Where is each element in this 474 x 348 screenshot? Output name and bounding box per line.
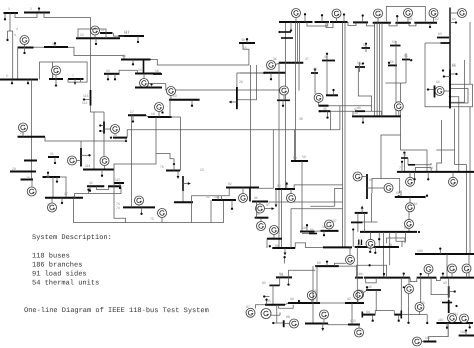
load bus49	[362, 116, 364, 123]
svg-text:113: 113	[83, 94, 89, 98]
load bus33r up	[332, 89, 334, 95]
bus 104 row b	[364, 277, 410, 279]
bus 99b	[267, 238, 282, 240]
wire 35-48 long	[330, 110, 381, 112]
wire 64x down d	[389, 232, 391, 265]
wire 84-83	[279, 277, 281, 285]
wire G99 stub	[273, 234, 275, 239]
node 13c dot	[278, 31, 280, 33]
generator G bus 31	[27, 187, 36, 196]
node 92 dot	[298, 300, 300, 302]
bus 56	[388, 64, 397, 66]
node 54 dot	[362, 62, 364, 64]
bus 12	[76, 37, 120, 39]
svg-text:59: 59	[293, 156, 297, 160]
generator G bus 15	[140, 79, 149, 88]
wire 96-100 b	[310, 205, 334, 207]
wire 81 u-box	[396, 232, 406, 241]
bus row seg 26	[315, 21, 330, 23]
node 64x dot	[352, 228, 354, 230]
wire 65b down b	[364, 213, 366, 232]
svg-text:7: 7	[72, 74, 74, 78]
wire 25-27 b	[60, 177, 66, 198]
node 18 dot	[161, 111, 163, 113]
wire 85-19x	[277, 305, 284, 323]
generator G bus 112r	[460, 314, 469, 323]
svg-text:91: 91	[313, 289, 317, 293]
load 68s dot	[403, 151, 405, 158]
svg-text:64: 64	[452, 17, 456, 21]
bus 118	[212, 199, 236, 201]
wire 115 down	[114, 183, 126, 223]
wire 112x right	[363, 221, 378, 223]
wire bus1-bus2 jog	[15, 13, 37, 18]
wire 96-98	[256, 202, 258, 218]
node 56 dot	[388, 62, 390, 64]
svg-text:63: 63	[438, 32, 442, 36]
generator G bus 105r	[424, 265, 433, 274]
wire 53 down to 49	[395, 60, 397, 117]
wire G75 stub	[161, 217, 163, 222]
bus 2	[24, 12, 50, 14]
bus 100r	[415, 253, 474, 255]
bus 6	[49, 78, 63, 80]
bus 24	[18, 136, 46, 138]
svg-text:22: 22	[206, 195, 210, 199]
wire 96-100 c	[335, 188, 343, 206]
svg-text:30: 30	[113, 133, 117, 137]
bus 48	[355, 110, 365, 112]
wire node4 h	[8, 30, 11, 32]
generator G bus 75g	[158, 209, 167, 218]
load bus110 a	[99, 124, 104, 126]
long wire pair b	[344, 22, 346, 247]
wire G111 stub	[104, 128, 111, 130]
svg-text:12: 12	[80, 33, 84, 37]
bus 15c	[239, 42, 255, 44]
wire 105-106	[315, 230, 321, 232]
bus 89x	[315, 265, 339, 267]
long wire right col b	[469, 107, 471, 254]
load bus2 up	[38, 7, 40, 12]
wire 63 col	[424, 43, 426, 107]
bus 93 vertical b	[448, 300, 450, 313]
bus 58	[408, 164, 415, 166]
svg-text:117: 117	[124, 31, 130, 35]
load bus94 a	[372, 315, 374, 322]
wire 34-48 long	[329, 106, 372, 112]
bus 15	[135, 87, 162, 89]
wire 116-81	[408, 212, 410, 220]
wire G46 stub	[363, 291, 366, 293]
load 20 dot	[263, 295, 269, 297]
svg-text:95: 95	[421, 301, 425, 305]
wire G66x stub	[362, 176, 367, 178]
svg-text:100: 100	[417, 249, 423, 253]
svg-text:97: 97	[266, 203, 270, 207]
generator G bus 111r	[448, 314, 457, 323]
wire row2 u1	[366, 278, 377, 283]
bus 76	[166, 170, 180, 172]
svg-text:85: 85	[267, 299, 271, 303]
svg-text:107: 107	[331, 219, 337, 223]
bus 110	[436, 322, 473, 324]
bus 31b	[48, 156, 59, 158]
svg-text:45: 45	[368, 285, 372, 289]
wire 65b down a	[357, 213, 359, 232]
bus 23x	[24, 160, 37, 162]
long wire right col a	[469, 22, 471, 84]
bus 85	[265, 304, 285, 306]
wire G56x stub	[283, 95, 285, 101]
wire 16-20 link	[238, 65, 257, 100]
wire 69 box	[372, 179, 400, 194]
load row2 d	[442, 272, 444, 277]
load 104 dot	[403, 286, 405, 288]
wire stair 56-49	[386, 82, 407, 84]
long wire bus5 down-left column	[31, 80, 33, 180]
wire 92-103	[351, 303, 353, 325]
load bus84 top	[283, 256, 285, 263]
wire 65-79 a	[450, 97, 459, 172]
svg-text:110: 110	[438, 318, 444, 322]
load bus97	[265, 207, 275, 210]
bus 43	[311, 72, 318, 74]
svg-text:31: 31	[50, 152, 54, 156]
load bus77 a	[413, 172, 415, 181]
wire 77 left v	[190, 196, 192, 223]
bus 93 vertical a	[448, 286, 450, 297]
svg-text:4: 4	[16, 27, 18, 31]
generator G bus 111	[111, 125, 120, 134]
wire 35 branch down	[339, 106, 341, 130]
svg-text:106: 106	[322, 225, 328, 229]
load bus110 b	[99, 130, 104, 132]
wire G10 stub	[24, 44, 26, 47]
svg-text:18: 18	[151, 112, 155, 116]
wire 110-112	[429, 323, 449, 342]
svg-text:82: 82	[228, 182, 232, 186]
bus 56x	[277, 99, 290, 101]
generator G bus 81g	[405, 219, 414, 228]
load bus6	[55, 79, 57, 87]
wire G106r stub	[451, 273, 453, 278]
wire 30-38 branch	[259, 130, 273, 188]
svg-text:15: 15	[243, 46, 247, 50]
bus 92b	[345, 302, 364, 304]
wire G25 stub	[295, 17, 297, 22]
svg-text:69: 69	[369, 178, 373, 182]
wire G91 stub	[334, 263, 345, 266]
bus 96	[252, 201, 268, 203]
load bus19	[191, 100, 193, 107]
svg-text:51: 51	[403, 153, 407, 157]
svg-text:111: 111	[453, 312, 458, 316]
bus 63b	[441, 42, 451, 44]
svg-text:94: 94	[366, 310, 370, 314]
load bus7	[74, 79, 77, 85]
generator G bus 25	[292, 9, 301, 18]
load bus20	[229, 101, 237, 104]
wire 80 box a	[290, 209, 292, 248]
wire G26t stub	[336, 18, 338, 22]
bus 102	[305, 323, 328, 325]
wire G104 stub	[408, 278, 410, 285]
bus 63a	[437, 37, 449, 39]
wire bus3 loop down	[40, 62, 53, 80]
load row2 b	[403, 272, 405, 277]
wire G15 stub up	[143, 74, 145, 79]
load bus66	[427, 88, 435, 90]
wire 118 down	[210, 200, 212, 222]
load bus74	[140, 207, 142, 215]
svg-text:1: 1	[8, 7, 10, 11]
bus 20 vertical	[236, 87, 238, 109]
bus 5	[0, 79, 38, 81]
generator G bus 89	[290, 319, 299, 328]
svg-text:39: 39	[241, 38, 245, 42]
generator G bus 103g	[355, 328, 364, 337]
wire 77 box	[415, 168, 431, 172]
node 80 left	[269, 245, 271, 247]
bus 29	[10, 171, 36, 173]
wire bundle b	[376, 23, 378, 117]
wire 21-22	[182, 191, 184, 202]
load bus115	[119, 183, 121, 189]
wire 100-102 col	[316, 266, 318, 303]
wire G62 stub	[433, 17, 435, 23]
wire 4-7 link	[53, 62, 88, 82]
generator G bus 85g	[261, 309, 271, 319]
svg-text:74: 74	[116, 206, 120, 210]
bus 54	[355, 66, 365, 68]
bus 37	[279, 62, 304, 64]
wire 45 down	[375, 290, 377, 311]
wire row2 to 94	[400, 278, 402, 311]
svg-text:78: 78	[388, 243, 392, 247]
wire 65-79 b	[450, 60, 465, 102]
bus 19	[170, 99, 200, 101]
bus 30	[113, 137, 127, 139]
load bus15 tick	[150, 83, 152, 87]
wire 94-110	[401, 315, 427, 323]
svg-text:26: 26	[47, 203, 51, 207]
svg-text:62: 62	[435, 17, 439, 21]
wire 55 v	[405, 53, 407, 66]
bus 88 vertical	[283, 320, 285, 327]
load bus62 dn	[275, 188, 278, 207]
wire bus17-18	[146, 115, 148, 117]
bus 99 cap b	[361, 240, 363, 246]
svg-text:11: 11	[101, 28, 105, 32]
generator G bus 24	[19, 123, 28, 132]
wire stair2	[437, 120, 442, 172]
generator G bus 62	[429, 9, 438, 18]
generator G bus 10	[20, 36, 29, 45]
generator G bus 80b	[449, 177, 458, 186]
load bus99 a	[369, 247, 371, 253]
bus 69 vertical	[366, 174, 368, 199]
wire G112 stub	[76, 160, 81, 162]
load bus110 a	[446, 323, 448, 329]
wire 40 down	[326, 61, 328, 96]
bus row seg 28	[353, 21, 368, 23]
wire bus10 down	[17, 48, 19, 80]
wire box down	[371, 193, 373, 222]
bus row seg 25	[279, 21, 313, 23]
svg-text:105: 105	[302, 226, 308, 230]
bus 94 cap b	[400, 311, 402, 319]
wire G112g stub	[421, 341, 423, 343]
bus 55	[402, 59, 410, 61]
wire G18 stub	[158, 111, 160, 117]
bus 27	[45, 197, 83, 199]
svg-text:3: 3	[52, 42, 54, 46]
node 68 dot b	[426, 195, 428, 197]
wire 113b top	[80, 141, 82, 148]
load bus32a	[89, 186, 91, 192]
svg-text:87: 87	[246, 305, 250, 309]
load row2 a	[383, 273, 385, 278]
svg-text:29: 29	[12, 167, 16, 171]
load bus113b	[81, 154, 91, 156]
generator G bus 36	[267, 61, 276, 70]
load bus25 up	[47, 172, 49, 177]
generator G bus 59	[374, 9, 383, 18]
svg-text:103: 103	[350, 319, 356, 323]
load bus65	[443, 75, 450, 77]
node 110 left dot	[426, 322, 428, 324]
wire 83-85	[272, 285, 274, 304]
generator G bus 33	[314, 93, 323, 102]
svg-text:116: 116	[412, 202, 418, 206]
load bus64 m	[450, 73, 458, 75]
load bus12	[95, 38, 97, 45]
wire 63 feed	[425, 42, 441, 44]
svg-text:33: 33	[106, 69, 110, 73]
bus 49	[352, 115, 401, 117]
load bus13	[132, 60, 134, 66]
wire 96-100 a	[268, 201, 342, 203]
svg-text:118: 118	[214, 195, 220, 199]
wire G31 stub	[31, 180, 33, 188]
long wire 24-30	[45, 137, 126, 141]
bus 53	[390, 45, 401, 47]
wire 100r v b	[468, 254, 470, 278]
svg-text:14: 14	[138, 68, 142, 72]
svg-text:32: 32	[89, 181, 93, 185]
wire 18-115	[114, 117, 156, 183]
load row dot c	[343, 13, 345, 22]
svg-text:2: 2	[30, 7, 32, 11]
load bus105 up	[306, 224, 308, 231]
wire 52 v	[365, 48, 367, 52]
generator G bus 61	[404, 9, 413, 18]
wire 11-117 jog	[114, 33, 124, 36]
generator G bus 66	[435, 87, 444, 96]
wire 65 stair down	[455, 109, 467, 165]
svg-text:One-line Diagram of IEEE 118-b: One-line Diagram of IEEE 118-bus Test Sy…	[24, 307, 209, 315]
bus 113 vertical	[90, 90, 92, 106]
wire 55 to stair	[405, 66, 407, 83]
bus 3	[44, 46, 68, 48]
bus 34rs	[318, 105, 328, 107]
wire 47 stair	[401, 116, 428, 172]
bus 99 cap a	[358, 240, 360, 246]
bus 13c b	[281, 37, 293, 39]
wire G12 stub	[94, 35, 96, 39]
wire G91g stub	[311, 300, 313, 304]
svg-text:19: 19	[173, 94, 177, 98]
bus 40	[322, 60, 335, 62]
long wire 12-15	[151, 43, 249, 65]
bus 45	[366, 289, 381, 291]
load bus43 up	[314, 68, 316, 73]
wire row u3	[348, 22, 356, 26]
svg-text:76: 76	[160, 165, 164, 169]
wire G33 stub	[318, 102, 320, 105]
long wire right col c	[466, 165, 468, 255]
bus 104 row d	[440, 277, 474, 279]
node bus34 left	[263, 72, 265, 74]
svg-text:53: 53	[392, 40, 396, 44]
wire 77 left link	[191, 188, 229, 196]
bus 34	[264, 72, 286, 74]
long wire 15-82	[250, 65, 252, 188]
bus 115	[114, 182, 124, 184]
bus 83	[269, 284, 279, 286]
wire 84 feed	[289, 270, 316, 277]
node 108 dot	[407, 322, 409, 324]
wire G26 stub	[51, 198, 53, 204]
wire 85 u	[279, 305, 294, 308]
bus 98	[255, 217, 269, 219]
load bus76 dn	[177, 171, 180, 180]
wire G100 stub up	[370, 232, 372, 239]
long wire 99-92	[356, 247, 358, 303]
node 65 j1	[449, 96, 451, 98]
wire bundle d	[381, 23, 383, 117]
wire G64t stub	[450, 12, 458, 14]
load bus77	[401, 161, 403, 172]
wire 59 drop	[294, 130, 296, 161]
load bus110 b	[469, 323, 471, 329]
bus 94 cap a	[361, 312, 363, 318]
bus 109	[459, 335, 474, 337]
generator G bus 112l	[68, 156, 77, 165]
bus row seg 27	[330, 21, 348, 23]
generator G bus 91g	[307, 291, 316, 300]
bus 68	[395, 196, 426, 198]
wire G66 right stub	[444, 90, 450, 92]
wire G107r stub	[466, 273, 468, 278]
bus 86	[309, 233, 317, 235]
bus 105	[300, 231, 315, 233]
wire 86 link	[302, 233, 309, 235]
wire G116 stub	[409, 197, 411, 203]
bus 18	[148, 116, 172, 118]
wire G61 stub	[407, 17, 409, 23]
wire G6 stub	[55, 75, 57, 79]
node 19 junction	[169, 99, 171, 101]
wire row u4	[367, 22, 375, 26]
load bus100r	[439, 247, 441, 254]
bus 14	[135, 73, 161, 75]
load bus25 dn	[56, 177, 58, 183]
wire G109 stub	[104, 166, 106, 170]
wire row2 u2	[410, 278, 417, 282]
wire row u1	[307, 22, 328, 26]
